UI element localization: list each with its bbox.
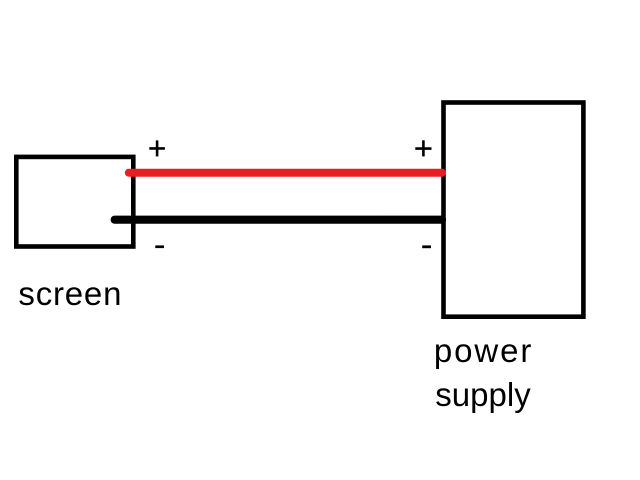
svg-text:screen: screen <box>18 275 122 312</box>
screen box <box>16 157 133 247</box>
svg-text:power: power <box>434 332 533 369</box>
plus label (screen side) <box>149 140 165 156</box>
minus label (power supply side) <box>422 245 431 248</box>
power supply box <box>444 103 584 317</box>
wire red positive <box>129 169 442 177</box>
svg-text:supply: supply <box>435 376 531 413</box>
wire black negative <box>115 216 442 224</box>
minus label (screen side) <box>155 245 164 248</box>
plus label (power supply side) <box>415 140 431 156</box>
